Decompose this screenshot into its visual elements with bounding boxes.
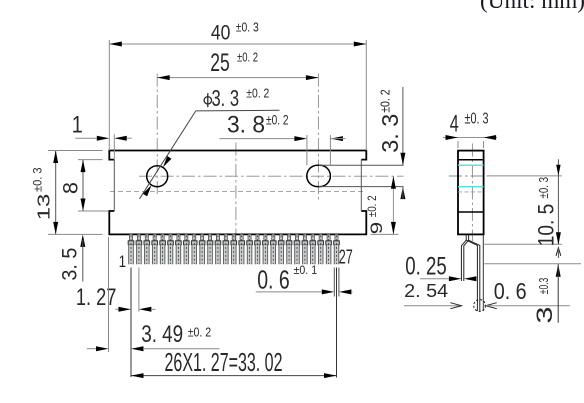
svg-text:1: 1 [72,112,83,139]
svg-text:13: 13 [34,194,54,221]
svg-text:0. 25: 0. 25 [405,253,447,281]
svg-text:2. 54: 2. 54 [404,280,448,301]
svg-text:3: 3 [532,307,557,324]
svg-text:3. 8: 3. 8 [227,111,265,138]
svg-text:9: 9 [367,222,386,235]
svg-text:±0. 3: ±0. 3 [236,21,259,35]
svg-text:1: 1 [119,252,127,271]
svg-text:±0. 2: ±0. 2 [237,51,258,65]
svg-text:0. 6: 0. 6 [494,278,527,304]
svg-text:3. 49: 3. 49 [141,321,183,348]
svg-text:10. 5: 10. 5 [533,204,558,247]
svg-text:±0. 3: ±0. 3 [537,177,551,199]
svg-text:40: 40 [211,21,231,45]
svg-text:26X1. 27=33. 02: 26X1. 27=33. 02 [165,349,283,377]
svg-text:8: 8 [58,182,82,194]
svg-text:3. 5: 3. 5 [59,248,82,281]
svg-text:4: 4 [450,111,459,138]
svg-text:±0. 2: ±0. 2 [266,112,289,127]
svg-text:0. 6: 0. 6 [257,264,290,294]
svg-text:±0. 2: ±0. 2 [188,325,212,340]
svg-text:25: 25 [210,49,230,77]
svg-text:±0. 2: ±0. 2 [379,89,393,113]
svg-text:1. 27: 1. 27 [76,284,117,311]
svg-text:27: 27 [339,246,353,268]
svg-text:±0. 3: ±0. 3 [465,110,489,127]
svg-text:±0. 1: ±0. 1 [294,263,318,277]
svg-text:3. 3: 3. 3 [377,114,403,153]
svg-text:±0.3: ±0.3 [536,278,551,295]
svg-text:±0. 2: ±0. 2 [365,195,379,217]
svg-text:±0. 2: ±0. 2 [246,86,269,100]
svg-text:(Unit: mm): (Unit: mm) [480,0,584,13]
svg-text:±0. 3: ±0. 3 [31,167,45,192]
svg-text:3. 3: 3. 3 [212,85,240,111]
